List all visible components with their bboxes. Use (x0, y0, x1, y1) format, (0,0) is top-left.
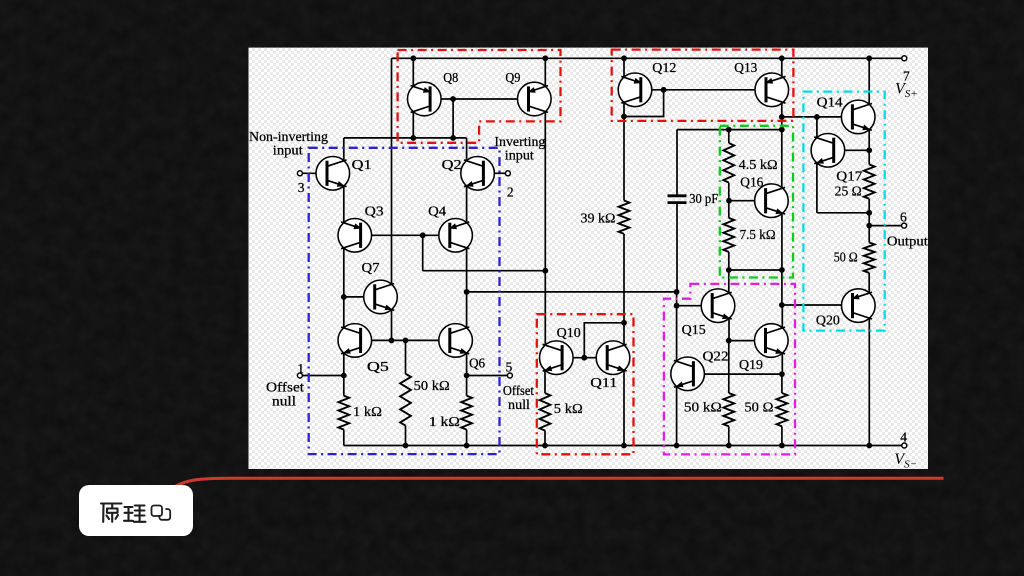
svg-text:Q20: Q20 (816, 312, 840, 327)
svg-text:5: 5 (506, 360, 513, 375)
svg-text:6: 6 (900, 210, 907, 225)
svg-text:Q19: Q19 (739, 357, 763, 372)
svg-text:Q2: Q2 (442, 157, 462, 172)
svg-text:Q10: Q10 (557, 325, 581, 340)
svg-text:Q6: Q6 (469, 356, 485, 371)
svg-text:50 kΩ: 50 kΩ (414, 378, 450, 393)
svg-text:Offset: Offset (266, 380, 304, 395)
svg-text:50 Ω: 50 Ω (744, 400, 773, 415)
svg-text:Q12: Q12 (652, 60, 676, 75)
svg-text:Q14: Q14 (817, 95, 843, 110)
svg-text:Q5: Q5 (367, 359, 389, 374)
svg-text:30 pF: 30 pF (689, 191, 718, 206)
svg-text:39 kΩ: 39 kΩ (581, 211, 616, 226)
svg-text:null: null (272, 394, 296, 409)
svg-text:Q1: Q1 (352, 157, 372, 172)
svg-text:3: 3 (298, 180, 305, 195)
svg-text:Output: Output (887, 234, 928, 249)
svg-text:25 Ω: 25 Ω (835, 184, 862, 199)
svg-text:null: null (508, 397, 530, 412)
svg-text:Offset: Offset (503, 383, 534, 398)
svg-text:7.5 kΩ: 7.5 kΩ (740, 227, 776, 242)
svg-text:Q8: Q8 (443, 70, 458, 85)
svg-text:input: input (273, 142, 303, 157)
svg-text:input: input (505, 148, 534, 163)
svg-text:1 kΩ: 1 kΩ (353, 404, 382, 419)
svg-text:4: 4 (900, 430, 907, 445)
svg-text:Q16: Q16 (740, 175, 763, 190)
svg-text:50 Ω: 50 Ω (834, 249, 858, 264)
svg-text:Q17: Q17 (836, 169, 862, 184)
svg-text:Q13: Q13 (734, 60, 757, 75)
svg-text:1 kΩ: 1 kΩ (429, 414, 460, 429)
svg-text:Q3: Q3 (365, 204, 384, 219)
svg-text:Q7: Q7 (362, 260, 380, 275)
svg-text:Q9: Q9 (505, 70, 520, 85)
svg-text:Q15: Q15 (682, 322, 706, 337)
svg-text:Q22: Q22 (703, 348, 729, 363)
svg-text:5 kΩ: 5 kΩ (554, 401, 583, 416)
svg-text:Q11: Q11 (590, 375, 617, 390)
svg-text:2: 2 (507, 185, 514, 200)
svg-text:Q4: Q4 (428, 204, 446, 219)
svg-text:50 kΩ: 50 kΩ (684, 400, 722, 415)
svg-text:1: 1 (297, 361, 304, 376)
svg-text:4.5 kΩ: 4.5 kΩ (739, 157, 778, 172)
